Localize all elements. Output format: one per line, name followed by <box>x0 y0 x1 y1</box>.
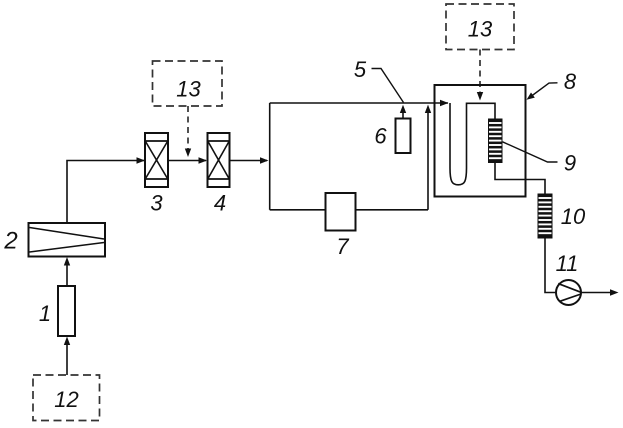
label 4 <box>214 191 226 216</box>
wire unit 3 to unit 4 <box>168 157 207 163</box>
svg-text:8: 8 <box>564 69 577 94</box>
dashed control wire from box 13 (right) <box>477 50 483 101</box>
svg-text:10: 10 <box>561 204 586 229</box>
unit 2 <box>29 223 106 257</box>
svg-text:11: 11 <box>556 251 579 276</box>
condenser coil 10 <box>538 194 553 239</box>
svg-text:1: 1 <box>39 301 51 326</box>
label 9 <box>564 151 576 176</box>
label 11 <box>556 251 579 276</box>
svg-text:12: 12 <box>54 387 78 412</box>
wire unit 4 to reactor loop <box>230 157 269 163</box>
callout line for node 5 <box>372 69 404 103</box>
unit 3 <box>145 133 168 187</box>
callout arrow for box 8 <box>527 83 558 100</box>
unit 7 <box>326 193 356 231</box>
furnace box 8 <box>435 85 526 197</box>
svg-text:5: 5 <box>354 57 367 82</box>
label 13 (right) <box>468 17 493 42</box>
wire from box 12 up to unit 1 <box>64 337 70 376</box>
wire from unit 2 up and right to unit 3 <box>67 157 145 223</box>
dashed controller box 13 (right) <box>446 4 514 50</box>
label 12 <box>54 387 78 412</box>
label 6 <box>374 124 387 149</box>
dashed feed box 12 <box>33 375 100 421</box>
loop top pipe into box 8 <box>270 102 448 104</box>
label 1 <box>39 301 51 326</box>
label 2 <box>3 228 17 255</box>
label 5 <box>354 57 367 82</box>
svg-text:4: 4 <box>214 191 226 216</box>
unit 1 <box>58 286 75 336</box>
loop bottom pipe through unit 7 <box>270 209 428 211</box>
label 7 <box>336 234 349 259</box>
svg-text:13: 13 <box>176 77 201 102</box>
label 3 <box>150 191 163 216</box>
label 8 <box>564 69 577 94</box>
svg-text:7: 7 <box>336 234 349 259</box>
wire from unit 6 up into top pipe <box>400 105 406 119</box>
outlet wire from pump 11 <box>581 289 619 295</box>
arrowhead into box 8 inlet <box>440 100 449 106</box>
svg-text:13: 13 <box>468 17 493 42</box>
label 13 (left) <box>176 77 201 102</box>
unit 6 <box>396 119 411 154</box>
callout line for coil 9 <box>503 142 558 162</box>
wire from unit 1 up to unit 2 <box>64 257 70 286</box>
U-tube inside box 8 <box>450 103 495 185</box>
wire coil 9 to coil 10 <box>495 163 545 194</box>
unit 4 <box>208 133 230 187</box>
svg-text:3: 3 <box>150 191 163 216</box>
label 10 <box>561 204 586 229</box>
pump 11 <box>556 280 581 305</box>
svg-text:2: 2 <box>3 228 17 255</box>
dashed controller box 13 (left) <box>153 61 223 106</box>
loop left vertical wire <box>269 103 271 210</box>
wire coil 10 to pump 11 <box>545 239 556 293</box>
svg-text:6: 6 <box>374 124 387 149</box>
loop right vertical wire with up arrow <box>425 105 431 210</box>
heater coil 9 <box>488 119 503 164</box>
svg-text:9: 9 <box>564 151 576 176</box>
dashed control wire from box 13 (left) <box>185 106 191 157</box>
